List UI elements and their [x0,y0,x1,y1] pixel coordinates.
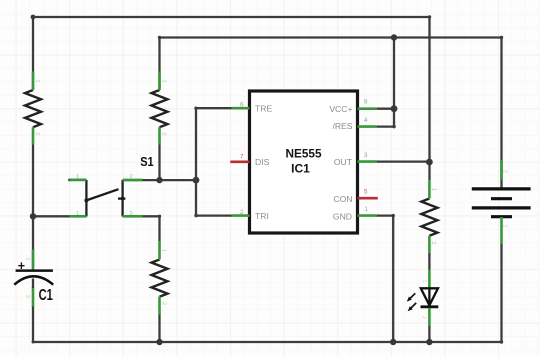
svg-text:7: 7 [240,154,244,161]
pin 7 DIS (unconnected, red) [230,154,269,168]
svg-text:1: 1 [76,174,79,180]
svg-text:2: 2 [24,295,30,298]
svg-text:6: 6 [240,102,244,109]
switch S1 [68,154,154,217]
wire from R4 down to LED [428,253,430,270]
node bendpoint at (33,342) [32,341,35,344]
svg-text:2: 2 [130,211,133,217]
node junction at (429.4,162) [426,159,433,166]
svg-text:4: 4 [364,117,368,124]
wire right vertical from top rail (429.5,17) down to resistor R4 [428,17,430,180]
node junction at (196,180.1) [193,177,200,184]
node bendpoint at (196,108.2) [194,107,197,110]
svg-text:NE555: NE555 [285,147,322,161]
svg-text:1: 1 [430,188,436,191]
wire from battery negative down to bottom rail [500,244,502,342]
svg-text:1: 1 [365,206,369,213]
svg-text:C1: C1 [39,287,53,304]
node bendpoint at (159.5,216.3) [158,215,161,218]
svg-text:TRE: TRE [255,104,272,114]
node bendpoint at (196,215.6) [194,214,197,217]
wire from second rail down to resistor R2 [158,38,160,91]
svg-text:GND: GND [333,211,352,221]
svg-text:TRI: TRI [255,211,269,221]
svg-text:8: 8 [364,99,368,106]
pin 6 TRE [232,102,273,114]
svg-text:2: 2 [160,132,166,135]
node junction at (159.5,180.1) [156,177,162,183]
node junction at (394,37.5) [391,34,397,40]
node junction at (393.2,342) [390,339,396,345]
svg-text:VCC+: VCC+ [329,104,352,114]
svg-text:2: 2 [130,174,133,180]
wire from R2 down to junction at (159.5,180.1) [158,145,160,181]
svg-text:1: 1 [160,249,166,252]
wire from R1 down to junction at (33,216.3) [32,145,34,217]
svg-text:2: 2 [34,132,40,135]
wire from R3 down to bottom rail [158,315,160,343]
pin 5 CON (unconnected, red) [333,189,377,204]
pin 8 VCC+ [329,99,377,115]
svg-text:DIS: DIS [255,157,270,167]
node bendpoint at (394,126.6) [392,125,396,129]
wire from second rail down to battery positive [500,38,502,188]
node bendpoint at (33,17) [31,15,36,20]
capacitor C1 (polarized) [14,250,53,308]
wire from junction (33,216.3) down to capacitor C1 [32,216,34,270]
svg-text:1: 1 [502,224,508,227]
wire from S1 top-right pin to TRE/TRI link through junction (159.5,180.1) [123,179,196,181]
pin 2 TRI [232,209,269,221]
svg-text:1: 1 [24,257,30,260]
svg-text:1: 1 [421,279,427,282]
node junction at (33,216.3) [30,213,36,219]
svg-text:2: 2 [160,302,166,305]
svg-text:3: 3 [364,152,368,159]
wire from C1 down to bottom rail [32,279,34,343]
wire from S1 bottom-right pin down to resistor R3 [123,216,160,241]
pin 4 /RES [332,117,377,131]
wire GND pin down to bottom rail [377,216,394,342]
svg-text:OUT: OUT [334,157,353,167]
LED LED1 [407,270,439,327]
wire bottom rail from (33,342) to (501.5,342) [33,341,502,343]
resistor R4 [421,180,437,253]
pin 3 OUT [334,152,377,167]
battery BT1 [472,160,531,244]
svg-text:1: 1 [160,79,166,82]
node junction at (429.4,342) [426,339,432,345]
node junction at (159.5,342) [156,339,162,345]
svg-text:2: 2 [502,170,508,173]
svg-text:2: 2 [240,209,244,216]
node bendpoint at (501.5,342) [500,340,503,343]
svg-text:5: 5 [364,189,368,196]
pin 1 GND [333,206,377,221]
svg-text:1: 1 [76,211,79,217]
node bendpoint at (393.2,215.6) [392,214,395,217]
wire OUT pin to junction (429.4,161.6) [377,160,430,162]
resistor R2 [152,72,168,145]
svg-text:/RES: /RES [332,121,352,131]
wire from junction (33,216.3) to S1 bottom-left pin [33,215,86,217]
svg-text:2: 2 [420,316,426,319]
node bendpoint at (159.5,37.5) [158,36,161,39]
node junction at (394,108.7) [391,105,398,112]
wire left vertical from top rail down to resistor R1 [32,17,34,90]
svg-text:CON: CON [333,194,352,204]
wire TRE/TRI link: vertical (196,108)-(196,215.6) with stubs to IC [196,108,232,215]
wire VCC+ and /RES to vertical at x=394 linked to second rail [377,38,395,127]
node bendpoint at (429.5,17) [428,15,431,18]
svg-text:S1: S1 [140,154,154,169]
svg-text:IC1: IC1 [291,162,310,176]
svg-text:2: 2 [430,241,436,244]
svg-text:+: + [18,259,25,273]
svg-text:1: 1 [34,79,40,82]
IC IC1 NE555 [230,91,377,233]
wire second rail from (159.5,37.5) to (501.5,37.5) [160,36,502,38]
resistor R3 [152,241,168,314]
wire from LED down to bottom rail [428,326,430,342]
node bendpoint at (501.5,37.5) [500,36,503,39]
wire top rail from node at (33,17) to (429.5,17) [33,16,430,18]
resistor R1 [25,72,41,145]
